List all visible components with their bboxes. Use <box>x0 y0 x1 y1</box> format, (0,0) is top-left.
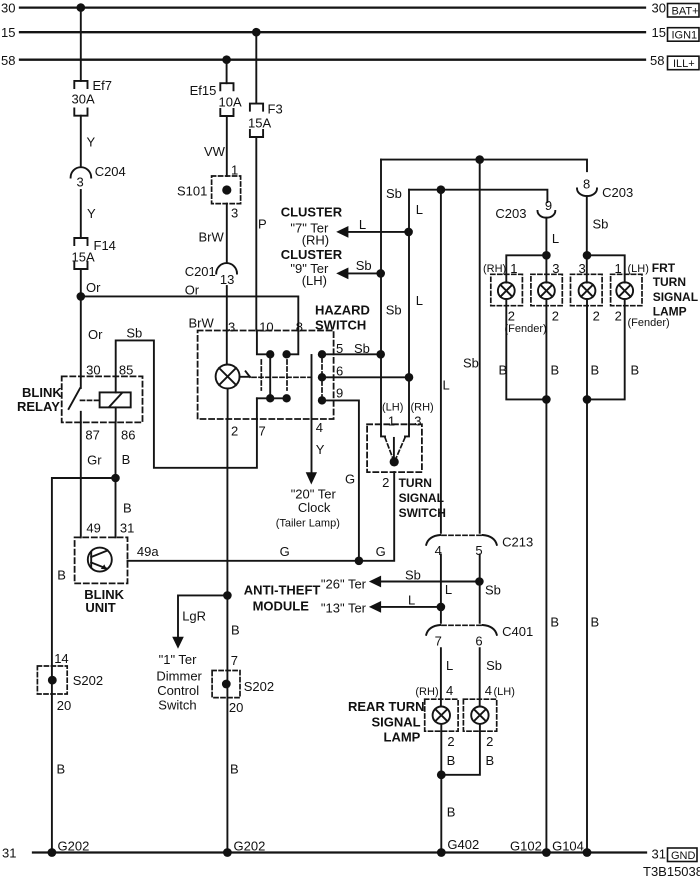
terminal box GND <box>668 848 698 862</box>
wire: top rail to C203 pin 8 <box>381 160 587 172</box>
ground G102 <box>510 839 551 857</box>
wire: blink unit 49a output to turn signal switch pin 2 <box>128 472 395 561</box>
svg-text:S101: S101 <box>177 184 207 199</box>
wire: Or junction down to relay pin 30 <box>81 296 103 376</box>
svg-text:B: B <box>123 501 132 516</box>
svg-text:15A: 15A <box>72 250 95 265</box>
label CLUSTER "9" Ter (LH) <box>281 247 343 288</box>
svg-text:G: G <box>345 471 355 486</box>
node: junction on bus 15 at F3 feed <box>252 28 261 37</box>
wire: Ef15 to S101, VW <box>204 116 238 178</box>
svg-text:ILL+: ILL+ <box>673 58 695 70</box>
node: junction 26 Ter on Sb wire <box>475 577 501 597</box>
node: LH front lamp branch junction <box>583 251 592 260</box>
hazard switch right contact set <box>312 350 327 419</box>
fuse F3 15A <box>248 102 283 138</box>
svg-text:GND: GND <box>671 850 696 862</box>
wire: C201 to hazard switch pin 3, BrW <box>189 286 236 335</box>
wire: bus30 down to fuse Ef7 <box>80 8 82 81</box>
wire: hazard pin 5 to LH line <box>322 341 381 356</box>
svg-text:3: 3 <box>414 414 421 429</box>
svg-text:2: 2 <box>382 475 389 490</box>
svg-text:(RH): (RH) <box>483 263 506 275</box>
svg-text:58: 58 <box>650 53 664 68</box>
svg-text:Sb: Sb <box>463 356 479 371</box>
svg-text:3: 3 <box>77 175 84 190</box>
svg-text:Sb: Sb <box>485 582 501 597</box>
svg-text:Gr: Gr <box>87 452 102 467</box>
wire: C213 4 to C401 7, L <box>440 554 442 622</box>
svg-text:(Fender): (Fender) <box>628 317 670 329</box>
fuse Ef7 30A <box>72 78 113 116</box>
svg-text:LgR: LgR <box>182 609 206 624</box>
arrow to cluster 7 <box>336 226 348 238</box>
svg-text:BAT+: BAT+ <box>672 5 699 17</box>
svg-text:VW: VW <box>204 144 226 159</box>
svg-text:Control: Control <box>157 683 199 698</box>
label: "20" Ter Clock (Tailer Lamp) <box>276 487 340 530</box>
svg-text:20: 20 <box>229 700 243 715</box>
wire: rear RH lamp ground leg <box>441 724 455 853</box>
wire: L rear feed vertical to C213 pin 4 <box>441 190 450 533</box>
wire: rear LH lamp ground leg <box>441 724 494 775</box>
svg-text:L: L <box>446 658 453 673</box>
svg-text:2: 2 <box>486 734 493 749</box>
svg-text:B: B <box>591 615 600 630</box>
ground G402 <box>437 837 479 857</box>
svg-text:CLUSTER: CLUSTER <box>281 204 343 219</box>
svg-text:FRT: FRT <box>652 261 676 275</box>
label FRT TURN SIGNAL LAMP <box>652 261 698 319</box>
svg-text:L: L <box>552 231 559 246</box>
connector C201 pin 13 <box>185 263 237 287</box>
svg-text:5: 5 <box>336 341 343 356</box>
svg-text:B: B <box>631 363 640 378</box>
wire: RH fender lamp ground leg <box>499 299 547 399</box>
svg-text:B: B <box>231 623 240 638</box>
svg-text:B: B <box>447 753 456 768</box>
wire: LH fender lamp ground leg <box>587 299 639 399</box>
fuse F14 15A <box>72 238 116 269</box>
connector C213 <box>426 535 533 559</box>
svg-text:(LH): (LH) <box>628 263 649 275</box>
label REAR TURN SIGNAL LAMP <box>348 699 425 745</box>
svg-text:RELAY: RELAY <box>17 399 60 414</box>
pin labels front lamps <box>483 261 649 276</box>
node: pin5 junction on Sb(LH) line <box>376 350 385 359</box>
turn signal switch <box>367 402 446 520</box>
svg-text:8: 8 <box>583 176 590 191</box>
wire: hazard pin 8 internal <box>287 331 299 355</box>
svg-text:15: 15 <box>1 25 15 40</box>
ground G202 (middle) <box>223 839 265 857</box>
svg-text:L: L <box>359 217 366 232</box>
arrow to dimmer control switch <box>172 637 184 649</box>
svg-text:B: B <box>486 753 495 768</box>
wire: hazard pin 9 down to 49a line, G <box>322 386 359 561</box>
svg-text:IGN1: IGN1 <box>672 30 698 42</box>
svg-text:Ef15: Ef15 <box>190 83 217 98</box>
svg-text:2: 2 <box>615 309 622 324</box>
svg-text:8: 8 <box>296 320 303 335</box>
svg-text:REAR TURN: REAR TURN <box>348 699 425 714</box>
svg-text:Switch: Switch <box>158 698 196 713</box>
node: junction cluster9 on Sb(LH) line <box>376 269 385 278</box>
svg-text:9: 9 <box>545 198 552 213</box>
svg-text:4: 4 <box>446 683 453 698</box>
wire: RH lamp ground leg to G102 <box>546 299 559 852</box>
node: junction on bus 30 at Ef7 feed <box>77 3 86 12</box>
wire: cluster 7 line to L(RH) vertical <box>348 217 409 232</box>
wire: C203 8 to front lamps LH, Sb <box>587 196 609 282</box>
svg-text:30: 30 <box>652 1 666 16</box>
svg-text:31: 31 <box>2 846 16 861</box>
terminal box ILL+ <box>668 56 700 70</box>
wire: F3 to hazard pin 10, P <box>256 137 266 331</box>
ground G202 (left) <box>48 839 90 857</box>
wire: S101 to C201, BrW <box>199 204 227 263</box>
svg-text:SWITCH: SWITCH <box>315 318 366 333</box>
label: "1" Ter Dimmer Control Switch <box>156 652 202 713</box>
svg-text:S202: S202 <box>73 673 103 688</box>
svg-text:Sb: Sb <box>126 325 142 340</box>
svg-text:BLINK: BLINK <box>22 385 62 400</box>
pin labels rear lamps <box>415 683 514 698</box>
svg-text:Sb: Sb <box>593 217 609 232</box>
svg-text:Dimmer: Dimmer <box>156 669 202 684</box>
node: RH front lamps ground junction <box>542 395 551 404</box>
wire: bus15 down to fuse F3 (crosses bus 58) <box>255 32 257 103</box>
wire: relay 87 to blink unit 49, Gr <box>81 422 102 537</box>
lamp FRT RH <box>531 274 562 305</box>
wire: C203 9 to front lamps RH, L <box>546 218 559 283</box>
wire: C401 6 to rear LH lamp, Sb <box>480 648 502 706</box>
svg-text:G402: G402 <box>447 837 479 852</box>
svg-text:49: 49 <box>86 521 100 536</box>
svg-text:B: B <box>550 615 559 630</box>
svg-text:G202: G202 <box>234 839 266 854</box>
node: junction 13 Ter on L wire <box>437 582 453 611</box>
svg-text:B: B <box>551 363 560 378</box>
svg-text:7: 7 <box>435 634 442 649</box>
svg-text:(RH): (RH) <box>415 686 438 698</box>
svg-text:20: 20 <box>57 698 71 713</box>
bus 58 (ILL+) <box>20 59 645 61</box>
hazard switch actuator lever <box>240 371 250 377</box>
svg-text:B: B <box>499 363 508 378</box>
svg-text:TURN: TURN <box>653 275 686 289</box>
svg-text:L: L <box>408 593 415 608</box>
wire: C213 5 to C401 6, Sb <box>479 554 481 622</box>
svg-text:B: B <box>447 805 456 820</box>
wire: relay 86 to blink unit 31, B <box>116 422 135 537</box>
arrow to clock <box>306 472 317 484</box>
wire: hazard pin 10 internal <box>257 331 270 355</box>
svg-text:S202: S202 <box>244 679 274 694</box>
svg-text:Sb: Sb <box>356 258 372 273</box>
svg-text:T3B15038: T3B15038 <box>643 864 700 879</box>
wire: anti-theft 26 line, Sb <box>321 568 480 592</box>
wire: Sb(LH) vertical from rail to turn signal switch pin 1 <box>381 160 402 425</box>
node: junction top rail at Sb rear feed <box>475 155 484 164</box>
svg-text:Sb: Sb <box>386 186 402 201</box>
svg-text:Y: Y <box>87 135 96 150</box>
svg-text:6: 6 <box>475 634 482 649</box>
lamp: hazard switch illumination lamp <box>216 331 240 420</box>
svg-text:C401: C401 <box>502 624 533 639</box>
svg-text:L: L <box>445 582 452 597</box>
svg-text:85: 85 <box>119 362 133 377</box>
connector C203 pin 8 <box>577 176 633 200</box>
svg-text:L: L <box>416 293 423 308</box>
svg-text:G: G <box>280 544 290 559</box>
svg-text:HAZARD: HAZARD <box>315 303 370 318</box>
wire: branch to LH fender lamp <box>587 255 625 282</box>
svg-text:Y: Y <box>316 442 325 457</box>
svg-text:(LH): (LH) <box>494 686 515 698</box>
node: junction second rail at L rear feed <box>437 185 446 194</box>
lamp REAR LH <box>463 699 496 731</box>
svg-text:C203: C203 <box>602 185 633 200</box>
svg-text:30: 30 <box>1 1 15 16</box>
svg-text:C213: C213 <box>502 535 533 550</box>
svg-text:C203: C203 <box>495 206 526 221</box>
svg-text:"26" Ter: "26" Ter <box>321 577 367 592</box>
svg-text:2: 2 <box>447 734 454 749</box>
svg-text:2: 2 <box>508 309 515 324</box>
ground G104 <box>552 839 591 857</box>
splice S101 <box>177 176 241 221</box>
terminal box IGN1 <box>668 28 700 42</box>
svg-text:G202: G202 <box>58 839 90 854</box>
bus 31 (GND) <box>33 851 646 853</box>
node: Or junction <box>77 292 86 301</box>
svg-text:C201: C201 <box>185 264 216 279</box>
wire: bus58 down to fuse Ef15 <box>226 60 228 83</box>
svg-text:4: 4 <box>316 420 323 435</box>
wire: hazard pin 6 to RH line <box>322 364 409 379</box>
svg-text:Or: Or <box>185 283 200 298</box>
wire: hazard pin 4 down to clock arrow, Y <box>312 419 325 472</box>
svg-text:SIGNAL: SIGNAL <box>653 290 698 304</box>
wire: F14 to Or junction <box>81 269 101 296</box>
svg-text:G: G <box>376 544 386 559</box>
svg-text:(Tailer Lamp): (Tailer Lamp) <box>276 518 340 530</box>
pin 2 labels and fender notes <box>505 309 670 336</box>
wire: Sb rear feed vertical to C213 pin 5 <box>463 160 480 533</box>
svg-text:(LH): (LH) <box>382 402 403 414</box>
wire: C401 7 to rear RH lamp, L <box>441 648 453 706</box>
svg-text:87: 87 <box>85 428 99 443</box>
bus 30 (BAT+) <box>20 6 645 8</box>
svg-text:Or: Or <box>86 280 101 295</box>
wire: Or horizontal to hazard pin 8 <box>81 283 298 331</box>
svg-text:F3: F3 <box>268 102 283 117</box>
svg-text:86: 86 <box>121 428 135 443</box>
svg-text:2: 2 <box>552 309 559 324</box>
svg-text:Sb: Sb <box>354 341 370 356</box>
wire: branch to RH fender lamp <box>506 255 546 282</box>
hazard switch left contact set <box>257 350 291 402</box>
svg-text:(RH): (RH) <box>411 402 434 414</box>
wire: second rail to C203 pin 9 <box>409 190 547 202</box>
svg-text:B: B <box>57 568 66 583</box>
svg-text:2: 2 <box>231 424 238 439</box>
svg-text:7: 7 <box>231 653 238 668</box>
arrow to cluster 9 <box>336 268 348 280</box>
svg-text:13: 13 <box>220 272 234 287</box>
wire: left B branch down to G202 <box>52 478 116 853</box>
svg-text:UNIT: UNIT <box>85 600 115 615</box>
svg-text:58: 58 <box>1 53 15 68</box>
svg-text:B: B <box>591 363 600 378</box>
svg-text:2: 2 <box>593 309 600 324</box>
svg-text:30: 30 <box>86 362 100 377</box>
svg-text:B: B <box>230 762 239 777</box>
node: rear lamps ground junction <box>437 770 446 779</box>
node: junction cluster7 on L(RH) line <box>404 228 413 237</box>
svg-text:10: 10 <box>259 320 273 335</box>
relay BLINK RELAY <box>17 362 143 442</box>
svg-text:(LH): (LH) <box>302 273 327 288</box>
svg-text:4: 4 <box>485 683 492 698</box>
node: junction on bus 58 at Ef15 feed <box>222 55 231 64</box>
svg-text:BrW: BrW <box>199 230 225 245</box>
node: junction 49a line with hazard pin 9 wire <box>355 557 364 566</box>
wire: hazard pin 7 exit <box>257 398 266 438</box>
svg-text:P: P <box>258 217 267 232</box>
node: LgR branch junction <box>223 591 232 600</box>
node: LH front lamps ground junction <box>583 395 592 404</box>
wire: anti-theft 13 line, L <box>321 593 441 616</box>
arrow to anti-theft 13 <box>369 601 381 613</box>
svg-text:MODULE: MODULE <box>253 598 310 613</box>
node: pin6 junction on L(RH) line <box>405 373 414 382</box>
wire: hazard pin 2 down to G202, B <box>227 419 239 853</box>
svg-text:Clock: Clock <box>298 500 331 515</box>
svg-text:ANTI-THEFT: ANTI-THEFT <box>244 583 321 598</box>
svg-text:F14: F14 <box>94 238 116 253</box>
svg-text:3: 3 <box>228 320 235 335</box>
wire: cluster 9 line to Sb(LH) vertical <box>348 258 381 274</box>
svg-text:L: L <box>416 202 423 217</box>
splice S202 (middle) <box>212 671 274 716</box>
svg-text:Y: Y <box>87 206 96 221</box>
svg-text:G104: G104 <box>552 839 584 854</box>
svg-text:31: 31 <box>652 847 666 862</box>
svg-text:B: B <box>57 762 66 777</box>
svg-text:TURN: TURN <box>399 476 432 490</box>
wire: Ef7 to C204, Y <box>81 116 96 167</box>
svg-text:Sb: Sb <box>486 658 502 673</box>
lamp FRT RH fender <box>491 274 523 305</box>
wire: L(RH) vertical from rail to turn signal switch pin 3 <box>409 190 423 425</box>
svg-text:15: 15 <box>652 25 666 40</box>
svg-text:Or: Or <box>88 327 103 342</box>
lamp FRT LH fender <box>611 274 642 305</box>
wire: Sb path hazard pin7 to relay pin 85 <box>116 325 257 467</box>
svg-text:BrW: BrW <box>189 316 215 331</box>
svg-text:Sb: Sb <box>405 568 421 583</box>
label ANTI-THEFT MODULE <box>244 583 321 614</box>
label CLUSTER "7" Ter (RH) <box>281 204 343 247</box>
terminal box BAT+ <box>668 4 700 18</box>
lamp FRT LH <box>571 274 603 305</box>
svg-text:1: 1 <box>388 414 395 429</box>
svg-text:L: L <box>443 378 450 393</box>
svg-text:7: 7 <box>259 424 266 439</box>
svg-text:14: 14 <box>54 651 68 666</box>
svg-text:6: 6 <box>336 364 343 379</box>
svg-text:SWITCH: SWITCH <box>399 506 446 520</box>
svg-text:30A: 30A <box>72 92 95 107</box>
svg-text:Sb: Sb <box>386 303 402 318</box>
svg-text:"1" Ter: "1" Ter <box>159 652 198 667</box>
blink unit U1 <box>75 537 128 615</box>
wire: LgR branch to dimmer control switch <box>178 595 227 637</box>
splice S202 (left) <box>37 666 103 713</box>
svg-text:B: B <box>122 452 131 467</box>
svg-text:9: 9 <box>336 386 343 401</box>
svg-text:Ef7: Ef7 <box>93 78 113 93</box>
svg-text:C204: C204 <box>95 164 126 179</box>
svg-text:(Fender): (Fender) <box>505 323 547 335</box>
svg-text:31: 31 <box>120 521 134 536</box>
wire: LH lamp ground leg to G104 <box>587 299 599 852</box>
connector C401 <box>426 624 533 648</box>
connector C203 pin 9 <box>495 198 555 221</box>
svg-text:CLUSTER: CLUSTER <box>281 247 343 262</box>
hazard switch linkage (dashed) <box>252 376 312 378</box>
svg-text:LAMP: LAMP <box>384 730 421 745</box>
svg-text:(RH): (RH) <box>302 233 329 248</box>
lamp REAR RH <box>425 699 458 731</box>
bus 15 (IGN1) <box>20 31 645 33</box>
hazard switch <box>198 303 370 420</box>
connector C204 pin 3 <box>71 164 126 190</box>
fuse Ef15 10A <box>190 83 242 116</box>
svg-text:49a: 49a <box>137 544 159 559</box>
svg-text:3: 3 <box>231 206 238 221</box>
svg-text:15A: 15A <box>248 116 271 131</box>
svg-text:G102: G102 <box>510 839 542 854</box>
svg-text:SIGNAL: SIGNAL <box>372 715 421 730</box>
svg-text:"13" Ter: "13" Ter <box>321 601 367 616</box>
arrow to anti-theft 26 <box>369 576 381 588</box>
svg-text:SIGNAL: SIGNAL <box>399 491 444 505</box>
svg-text:10A: 10A <box>219 95 242 110</box>
node: junction B wire to left ground branch <box>111 474 120 483</box>
wire: C204 to fuse F14, Y <box>81 190 96 238</box>
node: RH front lamp branch junction <box>542 251 551 260</box>
